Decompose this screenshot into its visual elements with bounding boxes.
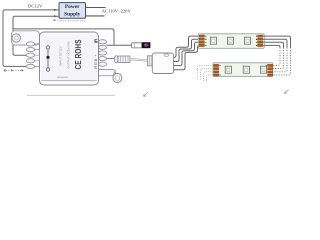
svg-text:CE ROHS: CE ROHS	[74, 40, 83, 70]
svg-text:- RGB +: - RGB +	[93, 54, 98, 73]
svg-text:Power: Power	[65, 4, 80, 10]
arrow on wire B	[54, 15, 57, 17]
DC jack stub	[107, 58, 115, 60]
strip2 LED 3	[260, 66, 266, 73]
controller label panel	[41, 35, 96, 81]
link wire 3	[263, 42, 284, 47]
svg-text:Connect the power plug: Connect the power plug	[57, 18, 86, 22]
strip1 left pads	[199, 35, 204, 47]
splitter input plug	[147, 56, 153, 66]
IR receiver body	[132, 43, 142, 48]
fan wire 4	[174, 45, 200, 69]
DC jack connector ring	[114, 56, 118, 63]
DC jack striped body	[118, 56, 130, 63]
wire AC end tick	[105, 13, 107, 16]
strip2 dashed continuation wire 2	[201, 69, 214, 81]
wire AC line top	[86, 7, 106, 9]
IR receiver head	[142, 42, 151, 48]
svg-text:Supply: Supply	[64, 11, 80, 17]
tiny serial smudge	[57, 77, 68, 78]
svg-text:IR: IR	[93, 38, 98, 43]
svg-text:OUTPUT DC5V-24V: OUTPUT DC5V-24V	[67, 41, 71, 68]
strip1 LED 3	[244, 37, 250, 44]
strip1 right pads	[258, 35, 263, 47]
svg-text:AC110V~220V: AC110V~220V	[102, 8, 132, 13]
strip1 wire color dots	[205, 36, 257, 46]
controller mounting ear top-left	[12, 31, 40, 45]
LED strip 2 body	[213, 63, 273, 77]
splitter block	[152, 53, 173, 74]
strip2 left pads	[214, 64, 219, 76]
small arrow mark right	[285, 89, 289, 93]
strip2 dashed continuation wire 4	[207, 75, 214, 82]
controller right pins	[99, 40, 107, 67]
controller U1 body	[40, 32, 99, 85]
fan wire 1 splitter to strip1 pad1	[174, 36, 200, 57]
svg-text:INPUT DC12V: INPUT DC12V	[58, 46, 62, 65]
strip2 right pads	[268, 64, 273, 76]
strip2 wire color dots	[220, 65, 267, 76]
strip2 dashed continuation wire 3	[204, 72, 214, 81]
link wire 1 strip1 pad1 to strip2 pad4	[263, 36, 291, 47]
fan wire 3	[174, 42, 200, 65]
wire AC line bottom	[86, 15, 105, 17]
strip1 LED 1	[210, 37, 216, 44]
fan wire 2	[174, 39, 200, 61]
wire C long run to DC jack	[13, 29, 114, 45]
controller mounting ear bottom-right	[96, 70, 116, 76]
cable jack to splitter	[130, 59, 148, 60]
controller left pins	[26, 42, 39, 69]
svg-text:DC12V: DC12V	[28, 4, 43, 9]
IR receiver cable	[107, 44, 132, 46]
small arrow mark left	[144, 92, 148, 96]
dotted insert arrow bottom left	[4, 69, 24, 71]
power supply box	[59, 3, 86, 19]
shadow line under controller	[27, 94, 115, 96]
arrow on wire A	[54, 9, 57, 11]
strip1 LED 2	[227, 37, 233, 44]
wire DC B inner	[13, 16, 59, 55]
link wire 2	[263, 39, 287, 47]
strip2 LED 2	[243, 66, 249, 73]
tiny caption above long wire	[54, 19, 56, 21]
strip2 LED 1	[225, 66, 231, 73]
LED strip 1 body	[199, 34, 265, 49]
link wire 4	[263, 45, 280, 47]
wire DC A outer	[3, 10, 59, 67]
pin diagram inside controller	[47, 47, 49, 69]
strip2 dashed continuation wire 1	[198, 65, 214, 79]
